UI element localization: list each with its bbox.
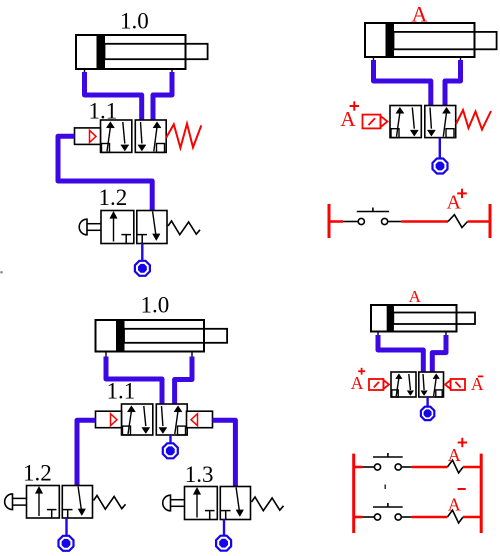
valve body 1.2 top	[101, 211, 167, 244]
plus of A+ top ladder	[457, 189, 467, 198]
pilot 1.1b left pilot	[96, 411, 122, 428]
air source under 1.3	[216, 536, 231, 551]
label A- (bottom ladder)	[448, 494, 461, 514]
valve body 1.2 bottom	[27, 486, 93, 519]
pushbutton contact top ladder button	[357, 208, 389, 225]
coil A+ coil top	[448, 215, 468, 228]
wire cyl1.0b left to valve	[106, 357, 162, 407]
rung A+ black wire L	[362, 466, 374, 468]
valve body 1.1 bottom	[122, 404, 188, 435]
svg-text:A: A	[448, 445, 461, 465]
svg-text:1.0: 1.0	[120, 9, 149, 34]
plus of A+ bottom ladder	[458, 438, 467, 447]
rung A+ red wire 2	[463, 466, 481, 469]
svg-text:1.1: 1.1	[107, 379, 136, 404]
wire Ab supply stub	[426, 397, 428, 407]
rung1 red wire	[401, 220, 448, 223]
air source under A valve	[433, 159, 448, 174]
rung A- red wire	[412, 516, 448, 519]
plus of A+ bottom solenoid	[358, 368, 365, 375]
spring 1.3 spring	[252, 497, 284, 511]
right rail (bottom ladder)	[480, 454, 483, 533]
stray speck	[0, 271, 3, 274]
rung A- red wire 2	[463, 516, 481, 519]
wire cyl1.0b right to valve	[175, 357, 192, 407]
minus of A- bottom ladder	[458, 488, 466, 490]
label 1.2 (top)	[99, 185, 128, 210]
spring 1.2b spring	[94, 496, 126, 510]
pushbutton contact A+ button	[373, 453, 403, 470]
pilot 1.1 left pilot	[75, 128, 101, 144]
svg-text:1.2: 1.2	[99, 185, 128, 210]
wire 1.1b supply stub	[169, 435, 171, 444]
svg-text:1.3: 1.3	[185, 462, 214, 487]
label A (bottom cylinder)	[409, 287, 422, 306]
pushbutton 1.3 button	[163, 495, 185, 511]
label A+ (top ladder)	[447, 192, 462, 214]
label A+ (top solenoid)	[340, 107, 356, 131]
solenoid A+ top	[363, 115, 388, 129]
air source under 1.2	[135, 261, 150, 276]
rung A+ black wire R	[401, 466, 411, 468]
rung A+ red wire	[412, 466, 448, 469]
right rail (top ladder)	[489, 204, 492, 238]
wire cylAb right to valve	[432, 335, 446, 374]
solenoid A+ bottom	[369, 379, 389, 390]
label 1.1 (bottom)	[107, 379, 136, 404]
wire 1.2b supply stub	[65, 518, 67, 536]
rung1 black wire L	[343, 221, 358, 223]
label 1.3	[185, 462, 214, 487]
rung A+ red stub	[354, 466, 363, 469]
svg-text:A: A	[351, 373, 364, 393]
label 1.0 (bottom)	[141, 293, 170, 318]
wire cyl1.0 left to valve 1.1 port A	[85, 72, 142, 122]
rung1 black wire R	[388, 221, 402, 223]
wire 1.3 out to 1.1b right pilot	[213, 420, 236, 488]
pushbutton contact A- button	[373, 503, 403, 520]
label A- (bottom solenoid)	[471, 374, 484, 394]
cylinder A bottom	[371, 305, 475, 337]
cylinder 1.0 bottom	[96, 320, 228, 357]
solenoid A- bottom	[445, 379, 465, 390]
wire cylA right to valve port B	[445, 60, 461, 107]
wire A top supply stub	[439, 138, 441, 159]
left rail (bottom ladder)	[352, 454, 355, 533]
rung A- black wire R	[401, 516, 411, 518]
rung1 red wire 2	[468, 220, 491, 223]
cylinder 1.0 top	[76, 35, 208, 74]
coil A+ coil	[447, 460, 463, 473]
pushbutton 1.2b button	[5, 494, 27, 510]
label 1.0 (top)	[120, 9, 149, 34]
valve body A bottom valve	[391, 372, 444, 397]
cylinder A top	[365, 23, 497, 62]
svg-text:A: A	[409, 287, 422, 306]
wire cylAb left to valve	[378, 335, 423, 374]
svg-text:1.0: 1.0	[141, 293, 170, 318]
label A (top cylinder)	[412, 2, 428, 27]
wire 1.3 supply stub	[223, 520, 225, 537]
wire cylA left to valve port A	[374, 60, 431, 107]
spring A top valve spring	[456, 110, 491, 130]
pilot 1.1b right pilot	[187, 411, 213, 428]
label A+ (bottom ladder)	[448, 445, 461, 465]
valve body 1.3	[185, 487, 251, 520]
air source under 1.1 bottom	[163, 443, 178, 458]
coil A- coil	[447, 510, 463, 523]
wire 1.2 supply stub	[141, 244, 143, 262]
svg-text:A: A	[448, 494, 461, 514]
label 1.1 (top)	[89, 99, 118, 124]
left rail (top ladder)	[328, 204, 331, 238]
rung1 red stub	[329, 220, 343, 223]
wire cyl1.0 right to valve 1.1 port B	[153, 72, 172, 122]
rung A- black wire L	[362, 516, 374, 518]
label A+ (bottom solenoid)	[351, 373, 364, 393]
svg-text:A: A	[447, 192, 462, 214]
label 1.2 (bottom)	[23, 461, 52, 486]
pushbutton 1.2 button	[79, 219, 101, 235]
valve body A top valve	[390, 106, 456, 138]
minus of A- bottom solenoid	[478, 375, 484, 377]
valve body 1.1 top	[101, 120, 167, 152]
air source under A bottom valve	[421, 407, 434, 420]
spring 1.1 return spring	[166, 124, 201, 148]
spring 1.2 spring	[168, 221, 200, 235]
rung A- red stub	[354, 516, 363, 519]
air source under 1.2 bottom	[59, 536, 74, 551]
junction tick	[384, 485, 386, 490]
plus of A+ top solenoid	[350, 101, 359, 110]
wire 1.2b out to 1.1b left pilot	[77, 420, 96, 487]
svg-text:1.2: 1.2	[23, 461, 52, 486]
wire valve 1.2 out to 1.1 pilot	[58, 136, 152, 212]
